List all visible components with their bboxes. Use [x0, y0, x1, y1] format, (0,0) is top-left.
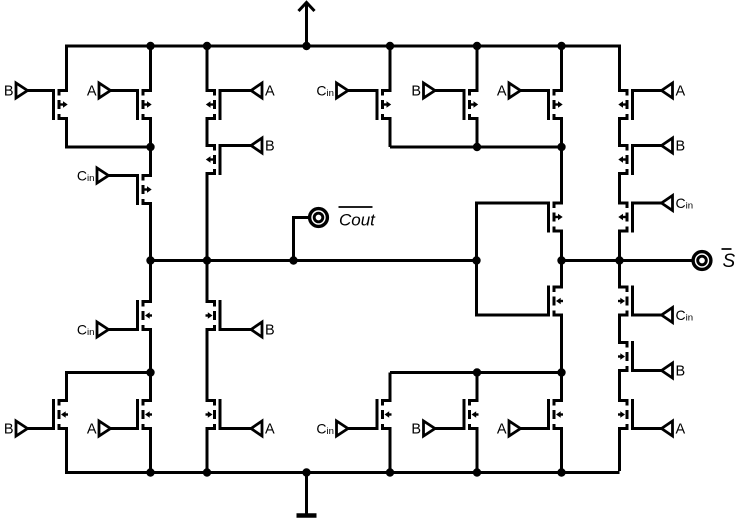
input port Cin (N6 gate) [337, 421, 349, 436]
transistor N4 (B, mirrored) [206, 300, 221, 331]
node: rail junction x477 [473, 42, 481, 50]
wire: P4 source to Cout rail [207, 174, 213, 261]
wire: gate lead of P6 [348, 89, 377, 92]
transistor N8 (A) [549, 399, 564, 430]
wire: N12 drain to Sum-bar rail [620, 261, 626, 288]
wire: P8 drain to VDD rail [556, 46, 562, 91]
input port Cin (N12 gate) [662, 308, 673, 323]
transistor N7 (B) [464, 399, 479, 430]
transistor P8 (A) [549, 89, 563, 120]
transistor P9 (Cout-bar series) [549, 202, 563, 233]
node: rail junction (477,472.5) [473, 468, 481, 476]
input port B (N4 gate) [251, 322, 262, 337]
svg-text:A: A [497, 422, 507, 438]
transistor N6 (Cin) [377, 399, 392, 430]
wire: N12 source to N11 drain [620, 315, 626, 343]
svg-text:B: B [4, 84, 14, 100]
wire: gate lead of N10 [633, 427, 662, 430]
input port A (N3 gate) [251, 421, 262, 436]
wire: gate lead of N7 [435, 427, 464, 430]
wire: N9 gate from Cout-bar node [477, 261, 549, 316]
wire: N8 source to ground rail [556, 429, 562, 473]
input port A (N2 gate) [99, 421, 111, 436]
wire: N9 source down [556, 315, 562, 373]
ground symbol [305, 473, 308, 516]
svg-text:A: A [676, 422, 686, 438]
wire: gate lead of P11 [633, 144, 662, 147]
transistor P7 (B) [464, 89, 478, 120]
wire: P3 source to P4 drain [207, 119, 213, 146]
node: junction (561.5,372.5) [557, 368, 565, 376]
wire: P9 gate from Cout-bar node [477, 203, 549, 261]
power VDD symbol [305, 2, 308, 46]
wire: P2 drain to VDD rail [145, 46, 151, 91]
input port A (N10 gate) [662, 421, 673, 436]
transistor N3 (A, mirrored) [206, 399, 221, 430]
node: junction (150.5,147) [146, 143, 154, 151]
node: rail junction x150 [146, 42, 154, 50]
wire: N4 drain to Cout rail [207, 261, 213, 302]
wire: N1 drain up [61, 373, 67, 401]
svg-text:A: A [676, 84, 686, 100]
input port B (P4 gate) [251, 138, 262, 153]
wire: P8 source down [556, 119, 562, 148]
node: junction (476.5,260.5) [472, 256, 480, 264]
input port B (P1 gate) [16, 83, 28, 98]
wire: VDD top rail [67, 45, 620, 48]
wire: P6 source down [384, 119, 390, 148]
wire: gate lead of P10 [633, 89, 662, 92]
terminal S-bar [693, 252, 711, 270]
wire: N5 source down [145, 330, 151, 373]
transistor P11 (B, mirrored) [618, 144, 632, 175]
wire: gate lead of P2 [111, 89, 138, 92]
svg-text:B: B [676, 364, 686, 380]
wire: node row A|B parallel (left) [65, 146, 151, 149]
input port Cin (P6 gate) [337, 83, 349, 98]
node: rail junction x390 [386, 42, 394, 50]
node: junction (619.5,260.5) [615, 256, 623, 264]
svg-text:B: B [4, 422, 14, 438]
node: junction (477,147) [473, 143, 481, 151]
wire: P2 source down [145, 119, 151, 148]
wire: N11 source to N10 drain [620, 371, 626, 401]
svg-text:B: B [676, 139, 686, 155]
wire: N5 drain to Cout rail [145, 261, 151, 302]
transistor N1 (B) [54, 399, 69, 430]
wire: P5 source to Cout rail [145, 204, 151, 261]
svg-text:A: A [265, 84, 275, 100]
wire: gate lead of P7 [435, 89, 464, 92]
wire: Sum-bar node rail [562, 259, 693, 262]
wire: P5 drain up [145, 147, 151, 176]
svg-text:A: A [497, 84, 507, 100]
transistor P12 (Cin, mirrored) [618, 202, 632, 233]
input port A (P10 gate) [662, 83, 673, 98]
transistor P5 (Cin) [138, 174, 152, 205]
wire: P1 drain to VDD rail [61, 45, 67, 91]
wire: gate lead of N6 [348, 427, 377, 430]
wire: N6 source to ground rail [384, 429, 390, 473]
svg-text:A: A [87, 422, 97, 438]
transistor N10 (A, mirrored) [618, 399, 633, 430]
wire: P1 source down [61, 119, 67, 148]
transistor N11 (B, mirrored) [618, 341, 633, 372]
wire: gate lead of N4 [220, 328, 251, 331]
wire: gate lead of N11 [633, 369, 662, 372]
wire: N1 source to ground rail [61, 429, 67, 475]
transistor P1 (B) [54, 89, 68, 120]
svg-text:B: B [411, 84, 421, 100]
wire: gate lead of P5 [109, 174, 138, 177]
wire: P6 drain to VDD rail [384, 46, 390, 91]
wire: gate lead of N2 [111, 427, 138, 430]
transistor P2 (A) [138, 89, 152, 120]
transistor N2 (A) [138, 399, 153, 430]
wire: P9 drain up [556, 147, 562, 203]
input port A (P2 gate) [99, 83, 111, 98]
transistor N12 (Cin, mirrored) [618, 286, 633, 317]
transistor P4 (B, mirrored) [206, 144, 220, 175]
svg-text:B: B [265, 323, 275, 339]
wire: N7 drain up [471, 373, 477, 401]
wire: P7 drain to VDD rail [471, 46, 477, 91]
input port B (P7 gate) [424, 83, 436, 98]
wire: N10 source to ground rail corner [620, 429, 626, 472]
node: junction (561.5,260.5) [557, 256, 565, 264]
input port Cin (P12 gate) [662, 196, 673, 211]
wire: Cout terminal lead [294, 218, 310, 261]
node: rail junction (150.5,472.5) [146, 468, 154, 476]
input port Cin (P5 gate) [97, 168, 109, 183]
node: junction (477,372.5) [473, 368, 481, 376]
wire: N4 source to N3 drain [207, 330, 213, 401]
svg-text:A: A [265, 422, 275, 438]
input port B (N7 gate) [424, 421, 436, 436]
wire: P12 source to Sum-bar rail [620, 231, 626, 261]
wire: gate lead of N5 [109, 328, 138, 331]
svg-text:S: S [723, 251, 736, 272]
wire: N8 drain up [556, 373, 562, 401]
wire: gate lead of N8 [521, 427, 549, 430]
terminal Cout-bar [310, 209, 328, 227]
wire: node row Cin|B|A parallel (right, bottom) [390, 371, 562, 374]
svg-text:B: B [265, 139, 275, 155]
wire: gate lead of N1 [28, 427, 54, 430]
wire: N2 source to ground rail [145, 429, 151, 473]
wire: P11 source to P12 drain [620, 174, 626, 204]
wire: ground bottom rail [67, 471, 620, 474]
svg-text:A: A [87, 84, 97, 100]
wire: P10 source to P11 drain [620, 119, 626, 146]
svg-text:B: B [411, 422, 421, 438]
wire: N7 source to ground rail [471, 429, 477, 473]
input port B (P11 gate) [662, 138, 673, 153]
transistor P6 (Cin) [377, 89, 391, 120]
wire: gate lead of N3 [220, 427, 251, 430]
wire: gate lead of P3 [220, 89, 251, 92]
node: junction (150.5,260.5) [146, 256, 154, 264]
node: rail junction (561.5,472.5) [557, 468, 565, 476]
node: VDD junction [302, 42, 310, 50]
wire: P9 source to Sum-bar rail [556, 231, 562, 261]
node: rail junction x207 [203, 42, 211, 50]
node: rail junction (390,472.5) [386, 468, 394, 476]
wire: gate lead of P4 [220, 144, 251, 147]
wire: P3 drain to VDD rail [207, 46, 213, 91]
wire: gate lead of P1 [28, 89, 54, 92]
transistor P3 (A, mirrored) [206, 89, 220, 120]
node: junction (150.5,372.5) [146, 368, 154, 376]
wire: Cout-bar node rail [151, 259, 477, 262]
input port A (N8 gate) [509, 421, 521, 436]
node: rail junction x561 [557, 42, 565, 50]
input port A (P8 gate) [509, 83, 521, 98]
transistor N9 (Cout-bar series) [549, 286, 564, 317]
wire: node row A|B parallel (left, bottom) [65, 371, 151, 374]
wire: node row Cin|B|A parallel (right) [390, 146, 562, 149]
wire: N6 drain up [384, 373, 390, 401]
node: ground junction [302, 468, 310, 476]
input port B (N11 gate) [662, 363, 673, 378]
wire: gate lead of N12 [633, 314, 662, 317]
svg-text:Cout: Cout [339, 211, 376, 230]
node: junction (293.5,260.5) [289, 256, 297, 264]
transistor N5 (Cin) [138, 300, 153, 331]
node: junction (207,260.5) [203, 256, 211, 264]
transistor P10 (A, mirrored) [618, 89, 632, 120]
wire: P7 source down [471, 119, 477, 148]
wire: gate lead of P12 [633, 202, 662, 205]
wire: P10 drain to VDD rail corner [620, 45, 626, 91]
node: rail junction (207,472.5) [203, 468, 211, 476]
wire: N3 source to ground rail [207, 429, 213, 473]
input port A (P3 gate) [251, 83, 262, 98]
wire: gate lead of P8 [521, 89, 549, 92]
wire: N9 drain to Sum-bar rail [556, 261, 562, 288]
node: junction (561.5,147) [557, 143, 565, 151]
input port Cin (N5 gate) [97, 322, 109, 337]
wire: N2 drain up [145, 373, 151, 401]
input port B (N1 gate) [16, 421, 28, 436]
